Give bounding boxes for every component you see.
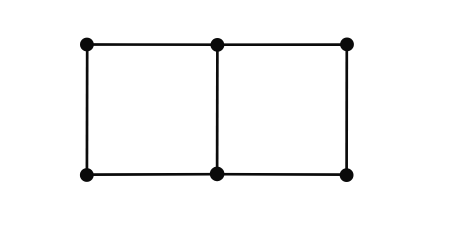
wire left vertical edge [86, 45, 89, 175]
node bottom-middle [210, 167, 225, 182]
node bottom-right [340, 168, 354, 182]
node top-right [340, 38, 354, 52]
wire right vertical edge [345, 45, 348, 175]
wire bottom-right edge [217, 173, 347, 176]
wire top-left edge [87, 43, 217, 46]
wire top-right edge [217, 43, 346, 46]
node top-left [80, 38, 94, 52]
node bottom-left [80, 168, 94, 182]
wire bottom-left edge [87, 173, 217, 176]
wire middle vertical edge [216, 45, 219, 175]
node top-middle [211, 38, 225, 52]
